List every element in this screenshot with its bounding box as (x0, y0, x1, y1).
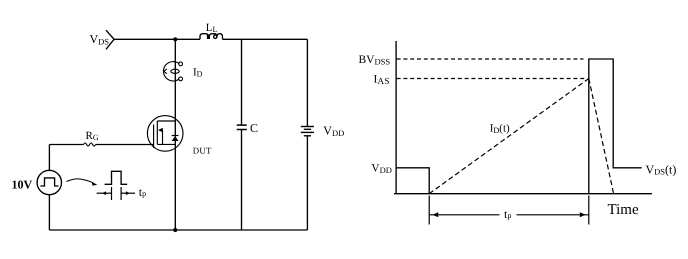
inductor LL (200, 34, 223, 40)
battery VDD (301, 127, 314, 136)
annotation gate pulse waveform (105, 171, 128, 184)
wire top rail right (223, 38, 308, 40)
svg-text:C: C (250, 121, 258, 135)
svg-text:BVDSS: BVDSS (359, 54, 391, 66)
VDS probe chevron (106, 30, 114, 49)
curve ID falling dashed (589, 79, 614, 196)
dashed level IAS (397, 78, 587, 80)
svg-text:VDS: VDS (90, 32, 110, 47)
svg-text:IAS: IAS (374, 74, 390, 88)
graph y-axis (395, 41, 397, 194)
svg-text:tp: tp (504, 207, 511, 221)
curve VDS initial step (396, 168, 429, 194)
pulse source V1 (10V) (37, 170, 61, 194)
curve ID(t) rising dashed ramp (429, 79, 589, 194)
wire gate lead (49, 144, 83, 146)
node source junction dot (173, 228, 177, 232)
annotation curved arrow (67, 179, 94, 183)
capacitor C (237, 125, 247, 129)
current probe ID (163, 62, 182, 81)
tp dimension tick left (428, 196, 430, 225)
svg-text:ID(t): ID(t) (490, 123, 510, 135)
svg-text:tp: tp (139, 185, 146, 199)
wire gate lead right (96, 144, 154, 146)
svg-text:Time: Time (608, 202, 639, 218)
dashed level BVDSS (397, 58, 584, 60)
wire capacitor branch top (241, 39, 243, 125)
tp dimension tick right (588, 196, 590, 225)
graph x-axis (394, 193, 652, 195)
resistor RG (84, 143, 96, 146)
svg-text:LL: LL (206, 22, 218, 34)
svg-text:DUT: DUT (193, 146, 212, 156)
curve VDS avalanche plateau (589, 59, 642, 194)
annotation pulse width bars (97, 187, 135, 200)
svg-text:VDD: VDD (371, 163, 392, 175)
wire top rail left (114, 38, 200, 40)
tp dimension line (429, 214, 499, 216)
svg-text:ID: ID (193, 67, 203, 79)
wire drain branch vertical (174, 39, 176, 230)
wire VDD branch bottom (306, 136, 308, 230)
svg-text:VDD: VDD (323, 123, 344, 138)
wire source branch vertical top (48, 145, 50, 171)
wire bottom rail (49, 229, 307, 231)
wire VDD branch top (306, 39, 308, 126)
svg-text:VDS(t): VDS(t) (646, 162, 677, 176)
svg-text:RG: RG (86, 130, 99, 142)
wire source branch vertical bottom (48, 195, 50, 230)
transistor DUT (MOSFET in circle) (147, 116, 183, 152)
node drain junction dot (173, 37, 177, 41)
svg-text:10V: 10V (12, 177, 33, 191)
wire capacitor branch bottom (241, 130, 243, 231)
